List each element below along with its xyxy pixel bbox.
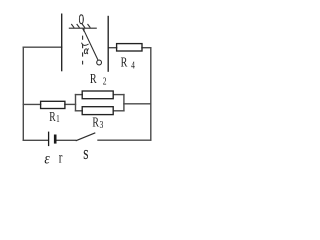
svg-text:1: 1: [56, 113, 60, 124]
svg-text:ε: ε: [44, 150, 49, 167]
wire stub R3 right: [113, 110, 124, 112]
svg-text:r: r: [59, 149, 63, 167]
label R4: [121, 54, 136, 71]
label r: [59, 149, 63, 167]
wire bottom-right from switch: [98, 139, 151, 141]
resistor R1 box: [41, 101, 65, 108]
label R3: [92, 114, 103, 132]
svg-text:2: 2: [103, 76, 107, 87]
battery plate long (positive): [48, 132, 50, 147]
capacitor plate left: [61, 14, 63, 72]
wire bottom-left to battery: [23, 139, 48, 141]
resistor R4 box: [117, 44, 142, 51]
wire stub to R2 left: [76, 94, 83, 96]
capacitor plate right: [107, 16, 109, 72]
svg-text:R: R: [90, 71, 97, 87]
pendulum pivot knot: [82, 29, 85, 33]
label epsilon: [44, 150, 49, 167]
svg-text:4: 4: [131, 59, 135, 70]
wire R4 to right rail: [142, 47, 151, 49]
pendulum string: [83, 29, 98, 60]
svg-text:3: 3: [99, 120, 103, 132]
switch S blade: [76, 133, 96, 141]
node bracket left of parallel group: [75, 95, 77, 111]
wire stub R2 right: [113, 94, 124, 96]
resistor R3 box: [82, 107, 113, 115]
svg-text:α: α: [84, 45, 89, 57]
svg-text:R: R: [121, 54, 128, 70]
battery plate short (negative): [54, 135, 57, 144]
svg-text:O: O: [79, 11, 84, 28]
angle arc: [82, 43, 89, 46]
wire R1 to parallel group: [65, 103, 76, 105]
svg-text:S: S: [83, 147, 88, 162]
wire middle branch from left rail to R1: [23, 103, 40, 105]
resistor R2 box: [82, 91, 113, 99]
wire stub to R3 left: [76, 110, 83, 112]
label R1: [49, 109, 59, 124]
label R2: [90, 71, 107, 87]
pendulum ball: [97, 60, 102, 65]
wire battery to switch: [57, 139, 76, 141]
wire capacitor right plate to R4: [108, 47, 116, 49]
wire parallel group to right rail: [124, 103, 151, 105]
pendulum support hatch: [69, 24, 97, 28]
wire left rail: [22, 47, 24, 140]
node bracket right of parallel group: [123, 95, 125, 111]
wire right rail: [150, 48, 152, 140]
wire top-left horizontal: [23, 46, 61, 48]
label S: [83, 147, 88, 162]
vertical dashed reference line: [82, 36, 84, 65]
svg-text:R: R: [92, 114, 99, 130]
svg-text:R: R: [49, 109, 56, 124]
